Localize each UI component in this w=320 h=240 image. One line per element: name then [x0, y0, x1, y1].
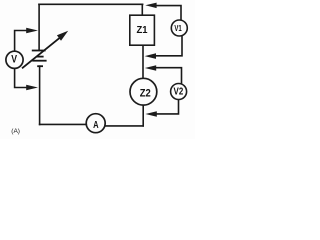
voltmeter V1 — [171, 20, 187, 36]
svg-text:Z2: Z2 — [140, 88, 151, 100]
arrowhead V2 top — [145, 65, 156, 71]
wire V1 bottom lead — [156, 36, 182, 56]
wire right vertical lower (A corner to Z2 bottom) — [142, 105, 144, 126]
svg-text:(A): (A) — [11, 128, 20, 135]
voltmeter V2 — [171, 84, 187, 100]
svg-text:Z1: Z1 — [137, 25, 148, 36]
wire Z1 top lead — [141, 4, 143, 15]
wire left vertical upper — [38, 4, 40, 50]
arrowhead V bottom stub — [26, 85, 38, 90]
wire V stub bottom — [15, 68, 27, 87]
arrowhead V1 top — [145, 3, 156, 9]
impedance Z2 — [130, 78, 157, 105]
battery B1 variable source plates — [32, 51, 47, 67]
arrowhead V top stub — [26, 28, 38, 33]
wire V1 top lead — [157, 6, 181, 21]
variable adjust arrow — [22, 31, 68, 69]
wire left vertical lower — [39, 66, 41, 124]
svg-text:A: A — [93, 119, 99, 131]
svg-text:V: V — [11, 54, 17, 66]
arrowhead V1 bottom — [145, 53, 156, 59]
impedance Z1 — [130, 15, 155, 45]
svg-text:V1: V1 — [174, 23, 182, 33]
wire bottom left horizontal — [40, 123, 87, 125]
voltmeter V — [6, 51, 23, 68]
wire right vertical middle (Z2 top to Z1 bottom) — [142, 45, 144, 78]
ammeter A — [86, 114, 105, 133]
wire V2 top lead — [156, 68, 182, 84]
arrowhead V2 bottom — [145, 111, 156, 117]
wire V2 bottom lead — [157, 100, 179, 114]
wire bottom right horizontal — [105, 125, 143, 127]
wire top horizontal — [39, 3, 143, 5]
svg-text:V2: V2 — [174, 86, 184, 97]
wire V stub top — [15, 31, 27, 52]
